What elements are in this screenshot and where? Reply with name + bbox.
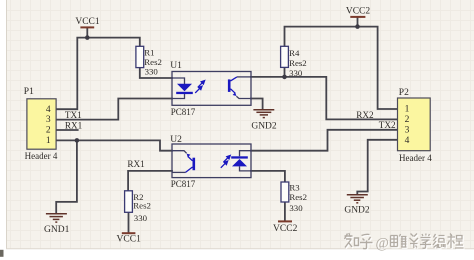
svg-text:330: 330 bbox=[289, 203, 303, 213]
svg-text:Header 4: Header 4 bbox=[399, 153, 432, 163]
svg-text:TX1: TX1 bbox=[65, 110, 82, 120]
svg-text:VCC1: VCC1 bbox=[117, 235, 142, 245]
svg-text:U1: U1 bbox=[170, 61, 182, 71]
svg-text:3: 3 bbox=[405, 126, 410, 136]
svg-text:RX2: RX2 bbox=[356, 110, 374, 120]
svg-text:1: 1 bbox=[405, 105, 410, 115]
svg-text:GND2: GND2 bbox=[251, 122, 277, 132]
svg-text:VCC2: VCC2 bbox=[273, 224, 298, 234]
svg-text:2: 2 bbox=[405, 115, 410, 125]
svg-text:4: 4 bbox=[46, 105, 51, 115]
svg-text:2: 2 bbox=[46, 126, 51, 136]
svg-text:330: 330 bbox=[289, 68, 303, 78]
svg-text:Res2: Res2 bbox=[289, 58, 307, 68]
svg-text:VCC2: VCC2 bbox=[346, 6, 371, 16]
svg-text:Res2: Res2 bbox=[289, 192, 307, 202]
svg-text:1: 1 bbox=[46, 136, 51, 146]
svg-text:Res2: Res2 bbox=[144, 57, 162, 67]
svg-text:P1: P1 bbox=[24, 87, 34, 97]
svg-text:P2: P2 bbox=[399, 88, 409, 98]
svg-text:Header 4: Header 4 bbox=[25, 151, 58, 161]
svg-text:3: 3 bbox=[46, 115, 51, 125]
svg-text:330: 330 bbox=[145, 66, 159, 76]
svg-text:RX1: RX1 bbox=[127, 159, 145, 169]
svg-text:PC817: PC817 bbox=[171, 107, 196, 117]
svg-text:GND1: GND1 bbox=[44, 225, 70, 235]
svg-text:TX2: TX2 bbox=[379, 120, 396, 130]
svg-text:VCC1: VCC1 bbox=[75, 17, 100, 27]
svg-text:R3: R3 bbox=[289, 182, 300, 192]
svg-text:R4: R4 bbox=[289, 48, 300, 58]
svg-text:Res2: Res2 bbox=[133, 201, 151, 211]
svg-text:PC817: PC817 bbox=[171, 179, 196, 189]
svg-text:GND2: GND2 bbox=[344, 206, 370, 216]
svg-text:U2: U2 bbox=[170, 135, 182, 145]
svg-text:4: 4 bbox=[405, 136, 410, 146]
svg-text:RX1: RX1 bbox=[65, 120, 83, 130]
svg-text:330: 330 bbox=[134, 213, 148, 223]
svg-text:@: @ bbox=[376, 236, 389, 252]
